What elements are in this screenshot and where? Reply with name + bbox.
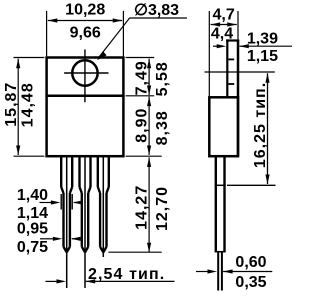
svg-text:16,25 тип.: 16,25 тип. bbox=[252, 82, 269, 168]
svg-text:15,87: 15,87 bbox=[3, 82, 20, 127]
svg-text:4,4: 4,4 bbox=[211, 25, 233, 42]
svg-text:8,38: 8,38 bbox=[154, 110, 171, 145]
svg-text:10,28: 10,28 bbox=[65, 1, 105, 18]
svg-text:14,48: 14,48 bbox=[20, 82, 37, 127]
svg-text:0,95: 0,95 bbox=[17, 220, 48, 237]
svg-text:14,27: 14,27 bbox=[133, 185, 150, 230]
svg-text:0,60: 0,60 bbox=[235, 254, 266, 271]
svg-text:0,75: 0,75 bbox=[17, 239, 48, 256]
svg-text:∅3,83: ∅3,83 bbox=[134, 2, 179, 19]
svg-text:5,58: 5,58 bbox=[154, 61, 171, 96]
svg-text:7,49: 7,49 bbox=[133, 60, 150, 95]
svg-text:9,66: 9,66 bbox=[70, 24, 101, 41]
svg-text:1,39: 1,39 bbox=[247, 30, 278, 47]
svg-text:2,54 тип.: 2,54 тип. bbox=[88, 266, 165, 283]
svg-text:4,7: 4,7 bbox=[212, 7, 234, 24]
svg-text:12,70: 12,70 bbox=[154, 186, 171, 231]
svg-text:8,90: 8,90 bbox=[133, 108, 150, 143]
svg-text:1,15: 1,15 bbox=[247, 48, 278, 65]
svg-text:1,40: 1,40 bbox=[17, 187, 48, 204]
svg-text:0,35: 0,35 bbox=[235, 274, 266, 291]
